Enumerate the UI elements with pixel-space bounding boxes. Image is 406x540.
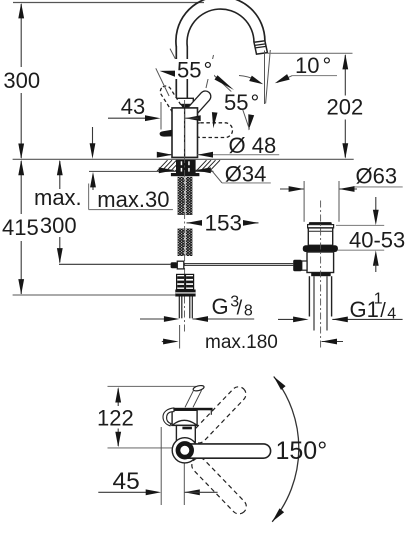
svg-text:150°: 150° [276,437,328,465]
svg-text:55°: 55° [177,57,212,82]
svg-text:45: 45 [113,468,140,495]
svg-text:153: 153 [205,211,243,236]
svg-text:/: / [237,298,243,320]
svg-text:max.30: max.30 [97,187,169,212]
svg-text:Ø63: Ø63 [356,164,398,189]
svg-text:202: 202 [327,95,364,120]
svg-text:300: 300 [3,68,40,93]
svg-text:10°: 10° [295,53,331,78]
svg-text:G: G [212,294,229,319]
svg-text:40-53: 40-53 [349,228,405,253]
svg-text:55°: 55° [224,90,259,115]
svg-text:max.: max. [34,185,82,210]
svg-text:300: 300 [40,213,77,238]
svg-text:/: / [380,300,386,322]
svg-text:122: 122 [97,405,134,430]
svg-text:8: 8 [244,303,253,320]
svg-text:4: 4 [387,306,396,323]
svg-text:max.180: max.180 [205,332,278,353]
svg-text:43: 43 [121,94,145,119]
svg-text:415: 415 [2,215,39,240]
